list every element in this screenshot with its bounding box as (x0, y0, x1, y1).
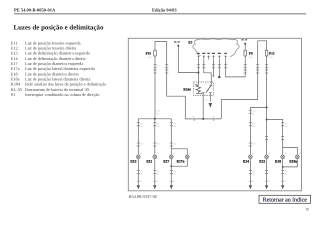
svg-text:Retornar ao índice: Retornar ao índice (263, 197, 308, 204)
svg-text:58: 58 (157, 152, 159, 155)
svg-text:0,5: 0,5 (285, 170, 288, 173)
svg-text:31: 31 (156, 180, 158, 183)
svg-text:0,5: 0,5 (141, 122, 144, 125)
svg-text:0,5: 0,5 (174, 143, 177, 146)
svg-text:0,5: 0,5 (253, 143, 256, 146)
svg-text:31: 31 (140, 180, 142, 183)
svg-text:0,5: 0,5 (253, 170, 256, 173)
svg-text:E17: E17 (163, 160, 169, 164)
svg-text:31: 31 (252, 180, 254, 183)
svg-text:58: 58 (212, 116, 214, 119)
svg-text:30: 30 (205, 83, 207, 86)
svg-text:58: 58 (268, 152, 270, 155)
svg-text:58: 58 (189, 152, 191, 155)
svg-text:58: 58 (252, 152, 254, 155)
svg-text:br: br (141, 173, 143, 176)
svg-text:31: 31 (173, 180, 175, 183)
svg-text:PE 54.00-B-0050-01A: PE 54.00-B-0050-01A (14, 8, 56, 13)
svg-text:10: 10 (305, 207, 309, 211)
svg-text:0,5: 0,5 (141, 143, 144, 146)
svg-text:br: br (157, 173, 159, 176)
svg-text:E3: E3 (188, 41, 192, 45)
svg-text:F8: F8 (249, 51, 253, 55)
svg-text:E18a: E18a (289, 160, 297, 164)
svg-text:0,75: 0,75 (156, 110, 160, 113)
svg-text:E17a: E17a (177, 160, 185, 164)
svg-text:31: 31 (285, 180, 287, 183)
svg-text:31: 31 (268, 180, 270, 183)
svg-text:E18: E18 (275, 160, 281, 164)
svg-text:0,5: 0,5 (141, 170, 144, 173)
svg-text:85: 85 (200, 93, 202, 96)
svg-text:0,5: 0,5 (253, 122, 256, 125)
svg-text:Luzes de posição e delimitação: Luzes de posição e delimitação (14, 25, 105, 32)
svg-text:E11: E11 (146, 160, 152, 164)
svg-text:0,5: 0,5 (174, 122, 177, 125)
svg-text:0,5: 0,5 (174, 170, 177, 173)
svg-text:86: 86 (195, 83, 197, 86)
svg-text:br: br (285, 173, 287, 176)
svg-text:7,5A: 7,5A (248, 56, 253, 59)
svg-text:Edição 04/03: Edição 04/03 (152, 8, 177, 13)
svg-text:0,5: 0,5 (157, 122, 160, 125)
svg-text:58: 58 (299, 152, 301, 155)
svg-text:E12: E12 (259, 160, 265, 164)
svg-text:58: 58 (285, 152, 287, 155)
svg-text:58: 58 (140, 152, 142, 155)
svg-text:E13: E13 (130, 160, 136, 164)
svg-text:0,5: 0,5 (285, 122, 288, 125)
svg-text:58: 58 (192, 116, 194, 119)
svg-text:58: 58 (173, 152, 175, 155)
svg-text:br: br (174, 173, 176, 176)
svg-text:br: br (253, 173, 255, 176)
svg-text:K104: K104 (183, 88, 191, 92)
svg-text:F16: F16 (146, 51, 152, 55)
svg-text:E14: E14 (243, 160, 249, 164)
svg-text:F13: F13 (269, 51, 275, 55)
svg-text:0,5: 0,5 (157, 170, 160, 173)
svg-text:7,5A: 7,5A (147, 56, 152, 59)
svg-text:gr: gr (253, 112, 255, 115)
svg-text:B54.00-0337-06: B54.00-0337-06 (129, 194, 158, 199)
svg-text:Interruptor combinado na colun: Interruptor combinado na coluna de direç… (25, 92, 99, 97)
svg-text:S1: S1 (11, 92, 16, 97)
svg-text:87: 87 (204, 93, 206, 96)
svg-text:15A: 15A (269, 56, 273, 59)
svg-text:0,5: 0,5 (157, 143, 160, 146)
svg-text:0,75: 0,75 (253, 110, 257, 113)
svg-text:30: 30 (157, 64, 159, 67)
svg-text:31: 31 (205, 99, 207, 102)
